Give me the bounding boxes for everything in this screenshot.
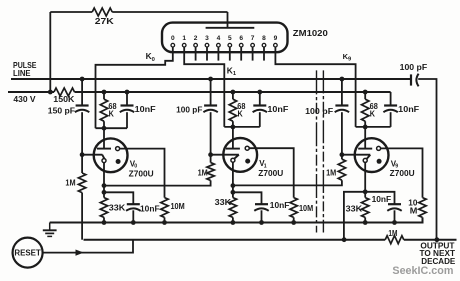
- junction K-network bottom stage2: [231, 125, 236, 130]
- capacitor 10nF cathode stage1: [127, 203, 140, 205]
- pin 0 of ZM1020: [171, 43, 175, 47]
- junction 10M ground stage1: [162, 220, 167, 225]
- wire stage3 cathode to output bus: [344, 192, 365, 240]
- wire trigger to 1M stage3: [341, 155, 343, 160]
- pin 3 of ZM1020: [205, 43, 209, 47]
- wire 33K bottom stage3: [364, 217, 366, 222]
- wire 1M stage3 to stage2 cathode: [233, 180, 342, 185]
- wire K0 from pin 0: [96, 47, 173, 128]
- wire K-network bottom stage3: [356, 126, 391, 128]
- wire 33K bottom stage2: [232, 217, 234, 222]
- resistor 1M (output): [385, 236, 404, 244]
- pulse line rail: [11, 78, 411, 80]
- starter lead stage3: [364, 127, 366, 149]
- svg-text:10M: 10M: [171, 201, 185, 211]
- starter bar V9: [358, 148, 372, 150]
- junction pulse line stage1: [80, 77, 85, 82]
- resistor 150K (supply): [54, 88, 75, 96]
- anode bar of ZM1020: [206, 27, 255, 29]
- svg-text:4: 4: [217, 35, 221, 42]
- junction K-network bottom stage3: [363, 125, 368, 130]
- wire anode lead into ZM1020: [227, 12, 229, 28]
- wire 68K bottom lead stage1: [103, 121, 105, 128]
- junction pulse line stage3: [340, 77, 345, 82]
- wire anode V0 to 10M: [120, 149, 165, 198]
- wire 10M bottom stage2: [293, 217, 295, 222]
- svg-text:LINE: LINE: [13, 68, 31, 78]
- junction 10M ground stage2: [291, 220, 296, 225]
- anode electrode V1: [245, 146, 249, 150]
- svg-text:33K: 33K: [109, 202, 126, 212]
- svg-text:3: 3: [205, 35, 209, 42]
- pin 8 stub: [263, 47, 265, 61]
- wire 68K bottom lead stage3: [364, 121, 366, 127]
- capacitor 100 pF coupling stage3: [335, 104, 348, 106]
- 430V rail: [8, 91, 54, 93]
- capacitor 100pF output coupling: [411, 74, 419, 87]
- trigger electrode V0: [102, 159, 106, 163]
- wire anode V9 to 10M: [381, 148, 423, 197]
- svg-text:RESET: RESET: [14, 247, 41, 257]
- wire trigger node to tube stage2: [211, 155, 239, 159]
- resistor 10M stage3: [419, 198, 426, 218]
- junction K-network bottom stage1: [102, 126, 107, 131]
- wire 1M stage1 to bottom bus: [81, 193, 83, 240]
- junction cathode 10nF line stage1: [102, 190, 107, 195]
- junction 430V and riser: [48, 90, 53, 95]
- wire 68K top lead stage3: [364, 92, 366, 99]
- wire 27K to ZM1020 anode: [112, 11, 227, 13]
- junction bottom 10nF ground stage3: [392, 220, 397, 225]
- wire K9 from pin 9: [275, 47, 355, 127]
- ground symbol: [43, 223, 57, 237]
- junction pulse line stage2: [208, 77, 213, 82]
- svg-text:Z700U: Z700U: [390, 169, 415, 178]
- junction 33K ground stage1: [102, 220, 107, 225]
- resistor 68K stage3: [362, 99, 369, 121]
- svg-text:10nF: 10nF: [398, 105, 419, 114]
- pin 5 stub: [229, 47, 231, 61]
- wire riser to 27K: [50, 11, 92, 13]
- anode electrode V0: [116, 147, 120, 151]
- pin 7 of ZM1020: [251, 43, 255, 47]
- svg-text:Z700U: Z700U: [258, 169, 283, 178]
- trigger tube V0 Z700U envelope: [94, 138, 128, 172]
- wire K-network bottom stage2: [224, 126, 259, 128]
- wire 68K bottom lead stage2: [232, 121, 234, 127]
- svg-text:K: K: [109, 109, 114, 118]
- svg-text:M: M: [410, 206, 418, 215]
- wire coupling cap top lead stage3: [341, 79, 343, 105]
- svg-text:8: 8: [262, 35, 266, 42]
- cathode lead V0: [103, 163, 105, 198]
- cathode glow dot V9: [377, 159, 382, 164]
- resistor 10M stage1: [161, 198, 168, 218]
- starter lead stage1: [103, 128, 105, 148]
- junction bottom 10nF ground stage2: [259, 220, 264, 225]
- junction 68K top stage3: [363, 90, 368, 95]
- resistor 68K stage2: [229, 99, 236, 121]
- anode electrode V9: [377, 146, 381, 150]
- svg-text:ZM1020: ZM1020: [293, 28, 328, 38]
- pin 7 stub: [252, 47, 254, 61]
- pin 2 stub: [195, 47, 197, 61]
- svg-text:1: 1: [182, 35, 186, 42]
- svg-text:150 pF: 150 pF: [48, 107, 75, 116]
- wire coupling cap to trigger stage2: [210, 112, 212, 155]
- wire cathode to bottom 10nF stage1: [104, 192, 133, 204]
- resistor 1M stage3: [338, 159, 345, 180]
- pin 8 of ZM1020: [262, 43, 266, 47]
- svg-text:100 pF: 100 pF: [400, 63, 428, 72]
- junction bottom bus stage3 coupling: [342, 237, 347, 242]
- svg-text:10nF: 10nF: [270, 201, 290, 210]
- wire bottom 10nF to ground stage2: [261, 210, 263, 222]
- wire 68K top lead stage2: [232, 92, 234, 99]
- pin 4 of ZM1020: [217, 43, 221, 47]
- svg-text:5: 5: [228, 35, 232, 42]
- reset button circle: [13, 238, 43, 268]
- pin 6 stub: [240, 47, 242, 61]
- bottom reset/output bus: [84, 239, 386, 241]
- junction 33K ground stage3: [363, 220, 368, 225]
- svg-text:150K: 150K: [53, 95, 75, 104]
- svg-text:33K: 33K: [215, 197, 232, 207]
- svg-text:1M: 1M: [198, 168, 208, 177]
- ground rail: [50, 217, 423, 222]
- resistor 33K stage3: [362, 198, 369, 218]
- wire trigger to 1M stage2: [210, 155, 212, 163]
- resistor 33K stage1: [100, 198, 107, 218]
- svg-text:6: 6: [239, 35, 243, 42]
- junction cathode bus A stage2: [231, 183, 236, 188]
- svg-text:1M: 1M: [65, 178, 75, 187]
- junction cathode stage3: [363, 189, 368, 194]
- pin 1 of ZM1020: [182, 43, 186, 47]
- resistor 1M stage2: [207, 163, 214, 181]
- capacitor 10nF anode stage1: [121, 104, 134, 106]
- junction 10nF top stage1: [125, 90, 130, 95]
- svg-text:430 V: 430 V: [13, 94, 36, 104]
- svg-text:10nF: 10nF: [267, 105, 288, 114]
- break line left (omitted stages): [316, 70, 318, 232]
- wire trigger node to tube stage1: [82, 155, 104, 159]
- wire cathode to bottom 10nF stage3: [365, 192, 394, 204]
- junction 68K top stage2: [231, 90, 236, 95]
- resistor 1M stage1: [78, 173, 85, 193]
- wire bottom 10nF to ground stage3: [394, 210, 396, 222]
- cathode lead V9: [364, 162, 366, 197]
- capacitor 100 pF coupling stage2: [204, 104, 217, 106]
- svg-text:K: K: [370, 109, 375, 118]
- wire 10nF bottom lead stage2: [259, 112, 261, 127]
- junction bottom 10nF ground stage1: [131, 220, 136, 225]
- junction right riser and bottom bus: [435, 237, 440, 242]
- wire coupling cap to trigger stage1: [81, 112, 83, 155]
- cathode lead V1: [232, 162, 234, 197]
- junction trigger node stage3: [340, 152, 345, 157]
- svg-text:0: 0: [171, 35, 175, 42]
- trigger electrode V9: [363, 158, 367, 162]
- pin 3 stub: [206, 47, 208, 61]
- wire K-network bottom stage1: [96, 127, 128, 129]
- starter bar V0: [97, 148, 111, 150]
- capacitor 10nF anode stage2: [253, 104, 266, 106]
- capacitor 150 pF coupling stage1: [76, 104, 89, 106]
- pin 5 of ZM1020: [228, 43, 232, 47]
- svg-text:100 pF: 100 pF: [305, 107, 333, 116]
- svg-text:9: 9: [274, 35, 278, 42]
- wire coupling cap top lead stage2: [210, 79, 212, 105]
- svg-text:10M: 10M: [299, 203, 313, 213]
- svg-text:2: 2: [194, 35, 198, 42]
- capacitor 10nF anode stage3: [384, 104, 397, 106]
- trigger tube V9 Z700U envelope: [355, 138, 389, 172]
- junction cathode bus A stage1: [102, 183, 107, 188]
- cathode glow dot V0: [116, 159, 121, 164]
- resistor 33K stage2: [229, 198, 236, 218]
- resistor 68K stage1: [100, 99, 107, 121]
- pin 4 stub: [217, 47, 219, 61]
- junction trigger node stage1: [80, 152, 85, 157]
- bottom bus to output: [404, 239, 457, 241]
- wire reset to bus: [43, 240, 133, 253]
- wire 33K bottom stage1: [103, 217, 105, 222]
- wire 10M bottom stage1: [164, 217, 166, 222]
- wire trigger node to tube stage3: [342, 155, 370, 159]
- trigger tube V1 Z700U envelope: [223, 138, 257, 172]
- pin 2 of ZM1020: [194, 43, 198, 47]
- starter bar V1: [226, 148, 240, 150]
- junction 68K top stage1: [102, 90, 107, 95]
- wire trigger to 1M stage1: [81, 155, 83, 173]
- wire 10nF bottom lead stage1: [126, 112, 128, 128]
- svg-text:Z700U: Z700U: [129, 169, 154, 178]
- wire K1 from pin 1: [184, 47, 224, 127]
- arrow on reset wire: [76, 250, 84, 256]
- capacitor 10nF cathode stage2: [255, 203, 268, 205]
- wire 1M stage2 to stage1 cathode: [104, 180, 211, 185]
- svg-text:27K: 27K: [95, 17, 114, 26]
- junction 33K ground stage2: [231, 220, 236, 225]
- starter lead stage2: [232, 127, 234, 149]
- svg-text:1M: 1M: [388, 229, 397, 238]
- wire output cap to right riser: [418, 79, 436, 240]
- 430V rail continued: [75, 91, 391, 93]
- nixie tube ZM1020 envelope: [162, 23, 288, 53]
- wire 10nF top lead stage3: [390, 92, 392, 105]
- wire 430V rail to anode-resistor riser: [49, 12, 51, 92]
- svg-text:33K: 33K: [346, 204, 363, 214]
- pin 9 of ZM1020: [274, 43, 278, 47]
- svg-text:10nF: 10nF: [372, 195, 392, 204]
- trigger electrode V1: [231, 158, 235, 162]
- svg-text:100 pF: 100 pF: [176, 105, 202, 114]
- svg-text:7: 7: [251, 35, 255, 42]
- wire anode V1 to 10M: [249, 148, 294, 197]
- svg-text:1M: 1M: [326, 169, 336, 178]
- wire coupling cap top lead stage1: [81, 79, 83, 105]
- wire bottom 10nF to ground stage1: [132, 210, 134, 222]
- svg-text:K: K: [238, 109, 243, 118]
- cathode glow dot V1: [245, 159, 250, 164]
- wire 10nF top lead stage2: [259, 92, 261, 105]
- capacitor 10nF cathode stage3: [388, 203, 401, 205]
- wire 10nF top lead stage1: [126, 92, 128, 105]
- break line right (omitted stages): [322, 70, 324, 232]
- wire coupling cap to trigger stage3: [341, 112, 343, 155]
- resistor 27K (anode resistor): [92, 8, 112, 16]
- wire 10nF bottom lead stage3: [390, 112, 392, 127]
- junction 10nF top stage2: [257, 90, 262, 95]
- svg-text:10nF: 10nF: [135, 105, 156, 114]
- resistor 10M stage2: [290, 198, 297, 218]
- wire 68K top lead stage1: [103, 92, 105, 99]
- pin 6 of ZM1020: [239, 43, 243, 47]
- junction cathode 10nF line stage2: [231, 190, 236, 195]
- svg-text:10nF: 10nF: [140, 204, 160, 213]
- junction trigger node stage2: [208, 152, 213, 157]
- svg-text:SeekIC.com: SeekIC.com: [392, 265, 453, 277]
- wire cathode to bottom 10nF stage2: [233, 192, 262, 204]
